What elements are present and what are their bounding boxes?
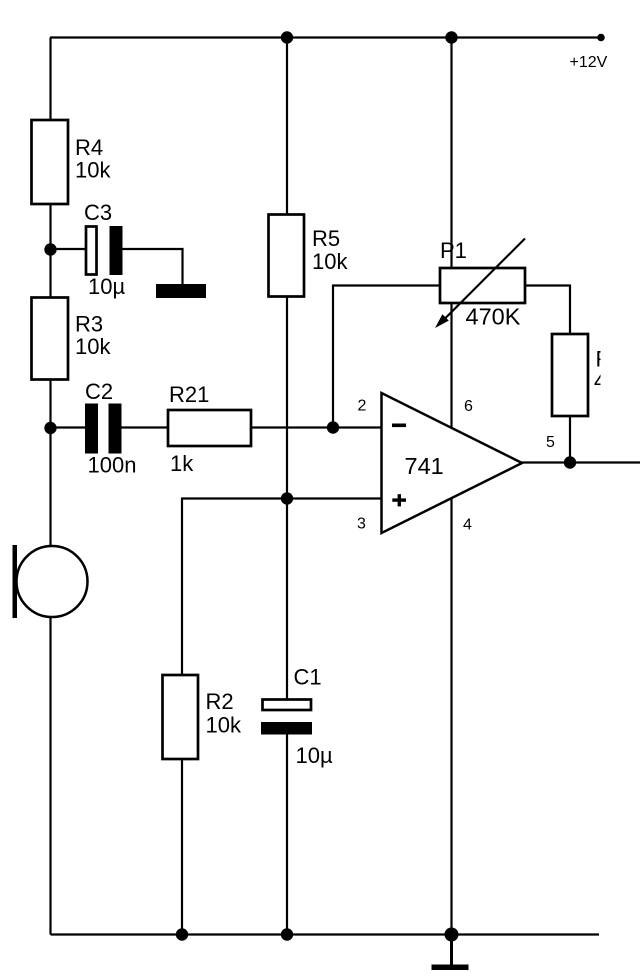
svg-text:10k: 10k: [75, 334, 111, 359]
svg-text:470K: 470K: [466, 304, 521, 330]
node: +12V terminal dot: [597, 34, 605, 42]
svg-text:R3: R3: [75, 312, 103, 337]
wire: C2 right plate to R21: [122, 426, 170, 428]
svg-text:10k: 10k: [206, 713, 242, 738]
wire: R4 bottom to R3 top: [49, 204, 51, 298]
node: output / R1 junction: [564, 456, 576, 468]
wire: + node corner down to R2 top: [181, 498, 183, 677]
wire: bottom ground rail: [51, 933, 600, 935]
svg-text:P1: P1: [440, 238, 467, 263]
svg-text:R4: R4: [75, 135, 103, 160]
svg-text:2: 2: [358, 398, 367, 415]
resistor R4: [32, 120, 69, 204]
wire: R21 to op-amp inverting input: [251, 426, 382, 428]
node: supply / ground rail junction: [445, 928, 459, 942]
wire: rail to R5 top: [286, 38, 288, 216]
label: R1 47.. (clipped at image edge): [594, 347, 640, 394]
wire: P1 right to R1 top: [525, 286, 570, 336]
resistor R5: [269, 215, 305, 297]
potentiometer P1: [440, 268, 525, 303]
wire: supply line from top rail through op-amp to ground: [450, 38, 452, 935]
wire: R5 bottom down through + node to C1: [286, 297, 288, 701]
svg-text:5: 5: [546, 434, 555, 451]
svg-text:1k: 1k: [170, 451, 194, 476]
wire: R1 bottom to output node: [569, 416, 571, 463]
wire: op-amp output: [521, 461, 640, 463]
capacitor C3 (electrolytic, + plate outlined): [86, 227, 97, 275]
node: R2/rail junction: [176, 928, 188, 940]
capacitor C2 100n: [85, 404, 98, 454]
svg-text:C1: C1: [294, 665, 322, 690]
microphone MIC1: [17, 546, 88, 617]
capacitor C1 (electrolytic, + plate outlined): [263, 700, 312, 711]
node: C1/rail junction: [281, 928, 293, 940]
svg-text:10k: 10k: [312, 249, 348, 274]
node: top rail / supply junction: [445, 31, 457, 43]
node: non-inverting input junction: [281, 492, 293, 504]
resistor R3: [32, 298, 69, 380]
wire: non-inverting input wire: [182, 497, 382, 499]
wire: microphone bottom to ground rail: [49, 617, 51, 935]
svg-text:+12V: +12V: [570, 54, 608, 71]
resistor R2: [163, 675, 199, 759]
wire: feedback from P1 wiper side down to inverting input: [333, 286, 440, 428]
wire: C3 right plate to ground drop: [123, 249, 183, 285]
svg-text:10µ: 10µ: [88, 274, 125, 299]
svg-text:C3: C3: [84, 200, 112, 225]
svg-text:R2: R2: [206, 689, 234, 714]
svg-text:4: 4: [463, 517, 472, 534]
ground: bottom ground symbol: [450, 935, 453, 967]
svg-text:10µ: 10µ: [296, 743, 333, 768]
wire: left branch, rail to R4 top: [49, 38, 51, 122]
wire: R3 bottom to microphone top: [49, 380, 51, 548]
wire: R2 bottom to rail: [181, 759, 183, 935]
node: junction R3/C2/mic: [44, 422, 56, 434]
wire: +12V top supply rail: [50, 36, 601, 38]
svg-text:6: 6: [464, 398, 473, 415]
op-amp U1 741: [382, 393, 523, 533]
svg-text:3: 3: [357, 516, 366, 533]
svg-text:R5: R5: [312, 226, 340, 251]
wire: C1 bottom to rail: [286, 735, 288, 935]
svg-text:C2: C2: [85, 379, 113, 404]
op-amp non-inverting (+) mark: [392, 498, 406, 501]
node: top rail / R5 junction: [281, 31, 293, 43]
svg-text:741: 741: [405, 453, 444, 479]
node: junction R4/R3/C3: [44, 243, 56, 255]
resistor R21: [168, 410, 251, 446]
node: inverting input junction: [327, 421, 339, 433]
op-amp inverting (-) mark: [392, 424, 406, 428]
resistor R1 (label clipped at edge): [552, 334, 588, 416]
wire: junction to C2 left plate: [51, 426, 86, 428]
ground: C3 ground bar: [156, 284, 206, 298]
svg-text:R21: R21: [169, 382, 209, 407]
svg-text:100n: 100n: [88, 453, 137, 478]
wire: junction to C3 left plate: [51, 248, 87, 250]
svg-text:10k: 10k: [75, 158, 111, 183]
